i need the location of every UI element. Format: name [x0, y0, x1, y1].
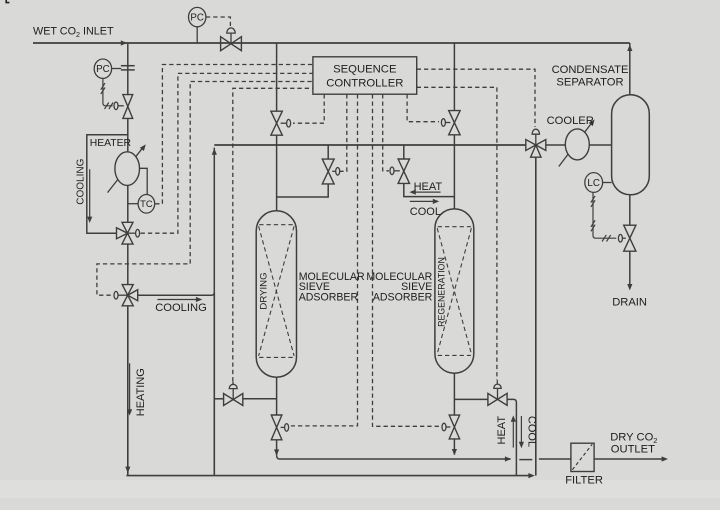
wire: filter outlet: [594, 456, 668, 461]
drying vessel packing marks: [259, 225, 295, 358]
valve K: pressure control valve: [114, 95, 133, 119]
svg-text:LC: LC: [587, 178, 600, 189]
wire: separator overhead riser: [627, 43, 632, 95]
label HEATER: [90, 138, 132, 149]
wire: valve D top stub: [327, 145, 329, 159]
label DRAIN: [612, 297, 647, 309]
label HEAT: [414, 181, 443, 193]
svg-text:ADSORBER: ADSORBER: [373, 292, 433, 304]
svg-text:CONTROLLER: CONTROLLER: [326, 77, 403, 89]
wire: valve B top stub: [403, 145, 405, 159]
signal: valve A bus: [407, 94, 439, 122]
svg-text:ADSORBER: ADSORBER: [299, 292, 359, 304]
signal: valve J bus: [417, 87, 497, 380]
capacitor style tap: [112, 66, 135, 70]
label COOLING horizontal: [155, 302, 207, 314]
wire: main drop line upper segment: [127, 43, 129, 95]
label MOLECULAR SIEVE ADSORBER right: [366, 271, 432, 304]
annotation: cooling arrow: [157, 297, 202, 302]
signal: valve C bus: [293, 94, 324, 123]
instrument LC stub: [603, 182, 612, 184]
valve 3: cooler 3-way valve: [526, 129, 546, 157]
wire: regen outlet down: [452, 439, 457, 456]
annotation: heat riser up arrow: [511, 415, 516, 447]
signal: cooling 3-way valve bus: [97, 82, 313, 296]
wire: drying column top drop: [276, 43, 278, 111]
label COOL vertical: [525, 416, 537, 447]
valve 1: heater 3-way valve: [117, 222, 140, 244]
svg-text:PC: PC: [96, 64, 110, 75]
wire: heating down pipe: [125, 306, 130, 476]
wire: riser lower part: [213, 292, 215, 475]
wire: drying vessel bottom stem: [276, 377, 278, 415]
wire: drying column drop to vessel: [276, 135, 278, 211]
heater circle: [108, 144, 146, 192]
signal: valve B bus: [383, 94, 389, 171]
label COOLER: [547, 115, 594, 127]
label COOL: [410, 206, 441, 218]
svg-text:WET CO2 INLET: WET CO2 INLET: [33, 26, 114, 40]
instrument TC: [138, 195, 155, 214]
valve: inlet control valve: [221, 28, 242, 51]
instrument PC (left): [94, 59, 111, 78]
svg-text:COOLER: COOLER: [547, 115, 594, 127]
valve C: drying inlet valve: [271, 111, 291, 135]
annotation: cool right arrow: [410, 199, 439, 204]
wire: main horizontal pipe: [214, 144, 526, 146]
valve 2: cooling 3-way valve: [114, 285, 138, 306]
wire: regen stem to valve J: [454, 398, 488, 400]
vessel: condensate separator: [612, 95, 650, 195]
sequence controller box: [313, 57, 417, 94]
signal: valve F bus: [233, 88, 313, 381]
wire: outlet pipe between risers: [519, 459, 532, 461]
wire: regen column drop to vessel: [453, 135, 455, 209]
label REGENERATION vertical: [437, 257, 447, 327]
svg-text:COOLING: COOLING: [75, 158, 86, 204]
svg-text:TC: TC: [140, 198, 153, 209]
wire: valve J to heat riser 1: [507, 399, 517, 475]
svg-text:REGENERATION: REGENERATION: [437, 257, 447, 327]
vessel: regeneration molecular sieve adsorber: [435, 209, 474, 373]
label HEAT vertical: [496, 416, 508, 445]
vessel: drying molecular sieve adsorber: [256, 211, 296, 377]
label HEATING vertical: [135, 368, 147, 416]
valve G: drying outlet valve: [271, 415, 288, 440]
svg-text:DRAIN: DRAIN: [612, 297, 647, 309]
valve D: drying cross valve: [322, 159, 339, 184]
label DRYING vertical: [259, 272, 270, 309]
svg-text:HEATING: HEATING: [135, 368, 147, 416]
valve J: bottom right isolation valve: [488, 380, 507, 405]
valve I: regen outlet valve: [442, 415, 460, 439]
label DRY CO2 OUTLET: [610, 432, 657, 456]
valve F: bottom left isolation valve: [224, 382, 243, 406]
signal: LC to drain valve capillary: [591, 193, 616, 242]
svg-text:PC: PC: [190, 13, 204, 24]
signal: PC to valve K capillary: [101, 79, 113, 110]
wire: heater TC link: [139, 168, 147, 195]
wire: drain outlet: [627, 251, 632, 290]
valve: drain valve: [618, 225, 636, 251]
signal: valve D bus: [340, 94, 347, 171]
svg-text:COOL: COOL: [525, 416, 537, 447]
annotation: heating down arrow: [127, 363, 132, 415]
wire: wet CO2 inlet top header: [33, 40, 630, 45]
label MOLECULAR SIEVE ADSORBER left: [299, 271, 365, 304]
svg-text:HEAT: HEAT: [414, 181, 443, 193]
svg-text:OUTLET: OUTLET: [611, 444, 655, 456]
signal: cooler 3-way valve bus: [417, 69, 535, 127]
wire: TC stub: [128, 203, 139, 205]
svg-text:DRYING: DRYING: [259, 272, 270, 309]
svg-text:HEATER: HEATER: [90, 138, 132, 149]
svg-text:FILTER: FILTER: [565, 475, 603, 487]
wire: valve D bottom to drying line: [277, 184, 329, 197]
wire: cooling pipe to riser: [138, 148, 217, 296]
signal: heater 3-way valve bus: [141, 73, 313, 233]
signal: PC top to inlet valve: [206, 17, 231, 27]
valve A: regen inlet valve: [441, 111, 460, 135]
instrument LC: [585, 173, 603, 193]
signal: valve G bus: [291, 94, 358, 426]
label COOLING vertical: [75, 158, 86, 204]
wire: cooling loop around heater: [87, 135, 128, 233]
annotation: heat left arrow: [409, 190, 440, 195]
label WET CO2 INLET: [33, 26, 114, 40]
wire: drop line valve-to-heater: [127, 119, 129, 153]
wire: regen vessel bottom stem: [453, 373, 455, 415]
wire: separator drain stem: [629, 195, 631, 226]
wire: outlet pipe to filter: [277, 455, 512, 461]
wire: cooler to separator: [588, 144, 611, 146]
wire: valve B bottom heat/cool pipe: [404, 183, 455, 196]
wire: between 3-way valves: [127, 244, 129, 285]
instrument PC (inlet header): [189, 7, 206, 26]
svg-text:CONDENSATE: CONDENSATE: [552, 64, 629, 76]
wire: riser to valve F: [214, 398, 223, 400]
svg-text:HEAT: HEAT: [496, 416, 508, 445]
wire: valve F to drying stem: [243, 398, 276, 400]
wire: regen column top drop: [453, 43, 455, 111]
label FILTER: [565, 475, 603, 487]
signal: valve I bus: [373, 94, 442, 426]
instrument PC stem: [196, 27, 198, 43]
filter box: [571, 443, 594, 471]
wire: heater to 3-way valve: [127, 184, 129, 222]
wire: cool return pipe 2: [535, 157, 537, 475]
page corner mark: [6, 0, 9, 3]
regen vessel packing marks: [437, 227, 471, 356]
valve B: regen heat valve: [390, 159, 410, 183]
svg-text:COOL: COOL: [410, 206, 441, 218]
annotation: cool riser down arrow: [519, 416, 524, 448]
wire: outlet pipe riser2 to filter: [539, 458, 571, 460]
annotation: cooling loop down arrow: [87, 169, 92, 223]
svg-text:SEQUENCE: SEQUENCE: [333, 64, 397, 76]
svg-text:COOLING: COOLING: [155, 302, 207, 314]
wire: 3-way valve to cooler: [546, 144, 567, 146]
label CONDENSATE SEPARATOR: [552, 64, 629, 88]
wire: drying outlet down: [274, 440, 279, 456]
svg-text:SEPARATOR: SEPARATOR: [556, 76, 623, 88]
wire: bottom header: [126, 473, 534, 478]
cooler circle: [559, 119, 595, 166]
signal: TC to sequence controller: [155, 65, 313, 204]
